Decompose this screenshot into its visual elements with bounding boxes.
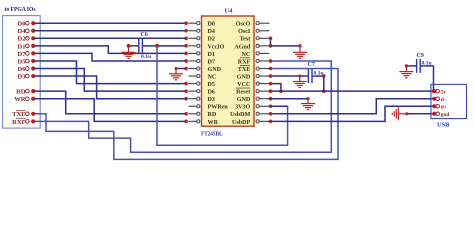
- pin left 13 RD: [189, 113, 197, 115]
- wire GND pin 2 (right): [269, 97, 308, 101]
- wire GND pin (left): [176, 67, 188, 71]
- svg-text:D2: D2: [18, 36, 26, 43]
- pin left 9 D5: [189, 83, 197, 85]
- wire D0: [35, 21, 188, 25]
- wire D4: [35, 29, 188, 33]
- svg-text:USB: USB: [437, 122, 450, 129]
- wire D1: [35, 46, 188, 55]
- ground below right GND: [301, 99, 315, 110]
- svg-text:VCC: VCC: [237, 82, 250, 88]
- pin right 8 GND: [259, 75, 269, 77]
- pin right 9 VCC: [259, 83, 269, 85]
- wire D5: [35, 61, 188, 85]
- wire UsbDP to USB d+: [269, 106, 435, 123]
- svg-text:0.1u: 0.1u: [314, 71, 324, 77]
- svg-text:GND: GND: [237, 74, 251, 80]
- svg-text:GND: GND: [208, 67, 222, 73]
- pin left 2 D4: [189, 30, 197, 32]
- capacitor C6: [139, 32, 151, 60]
- capacitor C9: [417, 53, 432, 73]
- wire 5v rail (Reset to USB 5v): [269, 89, 436, 93]
- wire UsbDM to USB d-: [269, 99, 435, 116]
- svg-text:Test: Test: [240, 37, 251, 43]
- svg-text:D1: D1: [18, 43, 26, 50]
- svg-text:RXF: RXF: [238, 59, 251, 65]
- USB pin 5v: [432, 89, 436, 93]
- wire VccIO net: [127, 44, 188, 48]
- svg-text:5v: 5v: [441, 89, 447, 95]
- ground sideways at USB: [392, 107, 407, 120]
- connector: to FPGA IOs harness box: [3, 16, 41, 129]
- pin left 4 VccIO: [189, 45, 197, 47]
- svg-text:OscO: OscO: [236, 22, 251, 28]
- svg-text:GND: GND: [237, 97, 251, 103]
- pin right 12 3V3O: [259, 105, 269, 107]
- svg-text:0.1u: 0.1u: [422, 61, 432, 67]
- svg-text:RD: RD: [16, 89, 26, 96]
- pin right 11 GND: [259, 98, 269, 100]
- svg-text:U4: U4: [225, 8, 234, 15]
- svg-text:D0: D0: [18, 21, 26, 28]
- svg-text:FT245BL: FT245BL: [201, 131, 223, 138]
- wire GND-C7 net: [269, 74, 326, 93]
- svg-text:WR: WR: [14, 96, 26, 103]
- ground at AGnd: [293, 46, 307, 58]
- USB pin d-: [432, 97, 436, 101]
- svg-text:to FPGA IOs: to FPGA IOs: [5, 6, 36, 13]
- pin right 5 NC: [259, 52, 269, 54]
- svg-text:WR: WR: [208, 120, 219, 126]
- wire RXF route: [35, 59, 332, 152]
- svg-text:RXF: RXF: [12, 119, 25, 126]
- svg-text:D1: D1: [208, 52, 215, 58]
- svg-text:NC: NC: [208, 74, 217, 80]
- connector USB box: [431, 84, 467, 118]
- svg-text:D5: D5: [18, 58, 27, 65]
- wire Test-AGnd net: [269, 37, 300, 48]
- svg-text:C6: C6: [141, 32, 148, 38]
- svg-text:D4: D4: [18, 28, 27, 35]
- svg-text:3V3O: 3V3O: [235, 105, 250, 111]
- pin left 12 PWRen: [189, 105, 197, 107]
- pin left 7 GND: [189, 68, 197, 70]
- pin right 14 UsbDP: [259, 120, 269, 122]
- ground at chip left: [169, 69, 183, 80]
- ground at C9: [399, 66, 413, 78]
- pin left 1 D0: [189, 22, 197, 24]
- svg-text:D3: D3: [18, 73, 27, 80]
- svg-text:NC: NC: [241, 52, 250, 58]
- pin left 5 D1: [189, 52, 197, 54]
- op-amp U4 FT245BL chip body: [202, 16, 255, 126]
- pin left 10 D6: [189, 90, 197, 92]
- svg-text:D7: D7: [208, 59, 215, 65]
- wire 3V3O stub: [271, 105, 288, 107]
- svg-text:D2: D2: [208, 37, 215, 43]
- svg-text:D6: D6: [208, 90, 215, 96]
- wire VCC tap: [269, 82, 283, 93]
- wire VccIO-3V3O route: [157, 46, 288, 145]
- svg-text:D6: D6: [18, 66, 27, 73]
- wire TXE route: [35, 67, 339, 160]
- pin right 13 UsbDM: [259, 113, 269, 115]
- capacitor C7: [308, 62, 324, 83]
- pin left 14 WR: [189, 120, 197, 122]
- svg-text:Reset: Reset: [236, 90, 250, 96]
- pin right 1 OscO: [259, 22, 269, 24]
- pin right 10 Reset: [259, 90, 269, 92]
- svg-text:D4: D4: [208, 29, 215, 35]
- pin left 11 D3: [189, 98, 197, 100]
- ground at C7: [293, 76, 307, 87]
- wire WR: [35, 99, 188, 123]
- ground at C6: [122, 46, 136, 58]
- USB pin d+: [432, 104, 436, 108]
- svg-text:D3: D3: [208, 97, 215, 103]
- svg-text:VccIO: VccIO: [208, 44, 225, 50]
- pin left 6 D7: [189, 60, 197, 62]
- svg-text:D5: D5: [208, 82, 215, 88]
- wire RD: [35, 91, 188, 115]
- svg-text:d-: d-: [441, 97, 446, 103]
- svg-text:OscI: OscI: [238, 29, 251, 35]
- wire D2: [35, 37, 188, 41]
- svg-text:UsbDP: UsbDP: [232, 120, 251, 126]
- svg-text:UsbDM: UsbDM: [230, 112, 251, 118]
- wire C9 net: [405, 64, 434, 91]
- pin right 6 RXF: [259, 60, 269, 62]
- svg-text:d+: d+: [441, 104, 447, 110]
- svg-text:C9: C9: [417, 53, 424, 59]
- pin right 7 TXE: [259, 68, 269, 70]
- USB pin gnd: [432, 112, 436, 116]
- pin right 2 OscI: [259, 30, 269, 32]
- svg-text:D7: D7: [18, 51, 27, 58]
- wire D6: [35, 69, 188, 93]
- svg-text:RD: RD: [208, 112, 217, 118]
- pin right 4 AGnd: [259, 45, 269, 47]
- svg-text:D0: D0: [208, 22, 215, 28]
- pin right 3 Test: [259, 37, 269, 39]
- svg-text:gnd: gnd: [441, 112, 450, 118]
- wire D7: [35, 53, 188, 62]
- svg-text:0.1u: 0.1u: [141, 54, 151, 60]
- svg-text:TXE: TXE: [12, 111, 25, 118]
- svg-text:AGnd: AGnd: [234, 44, 251, 50]
- pin left 3 D2: [189, 37, 197, 39]
- wire D3: [35, 76, 188, 100]
- svg-text:TXE: TXE: [238, 67, 251, 73]
- pin left 8 NC: [189, 75, 197, 77]
- svg-text:C7: C7: [308, 62, 315, 68]
- wire USB gnd: [405, 112, 434, 115]
- svg-text:PWRen: PWRen: [208, 105, 229, 111]
